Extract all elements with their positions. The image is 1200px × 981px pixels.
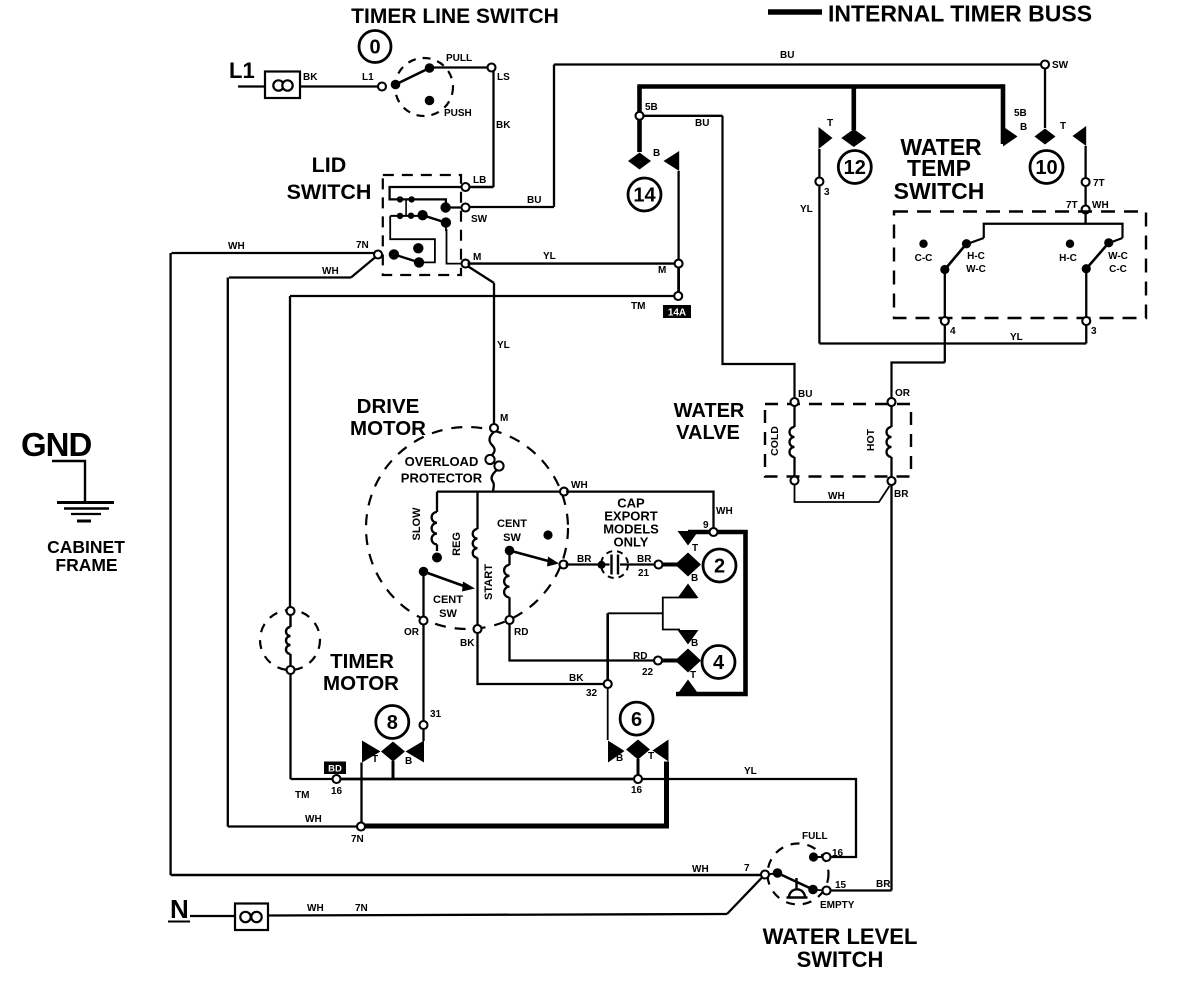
FULL contact: [809, 852, 818, 861]
svg-text:CENT: CENT: [433, 594, 463, 606]
lower cent sw arm: [424, 572, 469, 588]
lid switch bottom loop wire: [390, 216, 435, 263]
timer line switch dashed circle: [395, 58, 453, 116]
wire BU down to water valve: [723, 116, 795, 399]
circled 14: [628, 178, 661, 211]
wire YL node3 down: [818, 185, 820, 344]
wire L1 stub: [238, 85, 265, 87]
svg-text:8: 8: [387, 712, 398, 734]
wire BK from connector to node L1: [300, 85, 381, 87]
node 32: [604, 680, 612, 688]
wire 32 down to cam6: [607, 688, 609, 740]
svg-text:YL: YL: [543, 251, 556, 262]
wire node7 to pivot: [768, 873, 778, 875]
svg-text:LB: LB: [473, 175, 486, 186]
wire BU top run: [554, 63, 1042, 65]
wire cam10 T down to 7T: [1084, 146, 1086, 179]
svg-text:T: T: [648, 751, 654, 762]
wire 31 to cam8 B: [422, 728, 424, 741]
cam 2 diamond: [675, 553, 701, 577]
buss drop to cam 12: [851, 87, 856, 131]
wire WH diagonal from 7N: [351, 257, 376, 278]
timer line switch pivot contact: [391, 80, 401, 90]
cam 14 diamond: [628, 153, 651, 170]
node SW top right: [1041, 61, 1049, 69]
node 16 cam6: [634, 775, 642, 783]
wire TM to node 16: [291, 778, 334, 780]
upper cent sw arm arrowhead: [547, 557, 559, 567]
Z wire cam2B to cam4B and bus: [663, 598, 697, 630]
svg-text:L1: L1: [229, 58, 255, 83]
svg-text:YL: YL: [497, 340, 510, 351]
node 7T WH: [1082, 206, 1090, 214]
node TM: [674, 292, 682, 300]
svg-text:21: 21: [638, 568, 650, 579]
cam 6 T arrow: [653, 740, 669, 762]
svg-text:14: 14: [633, 185, 656, 207]
svg-text:N: N: [170, 894, 189, 924]
svg-text:7N: 7N: [356, 240, 369, 251]
overload ring 1: [485, 455, 494, 464]
svg-text:TIMER LINE SWITCH: TIMER LINE SWITCH: [351, 5, 559, 28]
node 16 full: [823, 853, 831, 861]
lid switch dashed box: [383, 175, 461, 275]
svg-text:PUSH: PUSH: [444, 108, 472, 119]
svg-text:RD: RD: [514, 627, 528, 638]
wire capacitor to node 21: [620, 563, 655, 565]
svg-text:9: 9: [703, 520, 709, 531]
fixed contact H-C: [1066, 240, 1074, 248]
node 7N bottom: [357, 823, 365, 831]
wire BR to capacitor: [566, 563, 610, 565]
wire cam8 T down to 7N: [360, 763, 362, 824]
label BK 32: [569, 673, 598, 699]
node BK drive: [474, 625, 482, 633]
label BR 21: [637, 554, 652, 579]
right arm lower contact: [1082, 264, 1091, 273]
cam 8 B arrow: [406, 741, 425, 763]
wire YL down to drive motor: [493, 283, 495, 424]
svg-text:7: 7: [744, 863, 750, 874]
wire 16 run to cam6: [340, 778, 636, 781]
upper cent sw pivot: [505, 546, 515, 556]
right switch arm: [1086, 243, 1109, 269]
lid switch row2 arm: [423, 215, 446, 222]
svg-text:WH: WH: [228, 241, 245, 252]
upper CENT SW label: [497, 518, 527, 544]
svg-text:TIMER: TIMER: [330, 650, 394, 673]
circled 2: [703, 549, 736, 582]
lid switch inner wire LB row: [390, 187, 464, 205]
svg-text:LID: LID: [312, 153, 347, 177]
node OR: [420, 617, 428, 625]
node 9: [710, 528, 718, 536]
water temp switch dashed box: [894, 212, 1146, 319]
wire cam14 B to node M: [677, 171, 679, 260]
lid switch row2 pivot: [417, 210, 427, 220]
node 7T: [1082, 178, 1090, 186]
svg-text:T: T: [372, 754, 378, 765]
node 4: [941, 317, 949, 325]
svg-text:BU: BU: [780, 50, 794, 61]
ground symbol: [57, 503, 114, 522]
svg-text:T: T: [692, 543, 698, 554]
svg-text:START: START: [483, 564, 495, 600]
lid switch row1 contact b: [408, 196, 414, 202]
START winding: [504, 553, 509, 617]
svg-text:PROTECTOR: PROTECTOR: [401, 471, 483, 486]
svg-text:B: B: [616, 753, 623, 764]
svg-text:12: 12: [844, 157, 866, 179]
svg-text:16: 16: [331, 786, 343, 797]
wire WH to lid 7N: [172, 252, 376, 254]
node L1: [378, 83, 386, 91]
wire WH to node 9: [566, 492, 714, 529]
svg-text:B: B: [653, 148, 660, 159]
REG winding line: [473, 492, 478, 625]
svg-text:14A: 14A: [668, 308, 686, 319]
svg-text:B: B: [405, 756, 412, 767]
wire N stub: [190, 915, 235, 917]
svg-text:ONLY: ONLY: [614, 535, 649, 550]
drive motor top bar: [437, 490, 562, 492]
wire right arm to node 3: [1085, 269, 1087, 318]
lid switch row2 contact b: [408, 213, 414, 219]
lower cent sw pivot: [419, 567, 429, 577]
cam 10 diamond: [1035, 129, 1056, 145]
connector CO at L1: [265, 72, 300, 99]
lid switch floating contact: [413, 243, 423, 253]
wire cam12 T down to node 3: [818, 149, 820, 178]
water level pivot: [773, 868, 783, 878]
svg-text:MOTOR: MOTOR: [350, 417, 426, 440]
cam 6 B arrow: [608, 741, 625, 763]
svg-text:HOT: HOT: [865, 428, 877, 451]
svg-text:3: 3: [1091, 326, 1097, 337]
node BR drive: [560, 561, 568, 569]
wire node4 down: [944, 324, 946, 363]
svg-text:OR: OR: [895, 388, 911, 399]
svg-text:FRAME: FRAME: [55, 555, 117, 575]
cam 4 T arrow: [678, 680, 699, 695]
thick bracket cap export: [676, 532, 746, 694]
wire BU from 5B node: [644, 115, 723, 117]
svg-text:M: M: [500, 413, 508, 424]
svg-text:BK: BK: [303, 72, 318, 83]
WATER TEMP SWITCH label: [894, 134, 985, 204]
svg-text:FULL: FULL: [802, 831, 828, 842]
thick wire node22 to cam4: [661, 659, 678, 663]
left moving contact: [962, 239, 971, 248]
circled 10: [1030, 151, 1063, 184]
lower CENT SW label: [433, 594, 463, 620]
svg-text:WATER LEVEL: WATER LEVEL: [763, 924, 918, 949]
label RD 22: [633, 651, 654, 678]
node 7N lid: [374, 251, 382, 259]
timer line switch PUSH contact: [425, 96, 435, 106]
wire 7T into box: [1084, 213, 1086, 224]
node 5B: [636, 112, 644, 120]
svg-text:B: B: [691, 573, 698, 584]
svg-text:BU: BU: [695, 118, 709, 129]
connector CO at N: [235, 904, 268, 931]
upper cent sw arm: [510, 551, 553, 563]
svg-text:WH: WH: [828, 491, 845, 502]
svg-text:16: 16: [832, 848, 844, 859]
svg-text:5B: 5B: [1014, 108, 1027, 119]
svg-text:WH: WH: [322, 266, 339, 277]
node OR valve: [888, 398, 896, 406]
wire WH left riser down: [169, 253, 171, 875]
label W-C / C-C: [1108, 251, 1128, 275]
wire YL horizontal run: [819, 342, 1086, 344]
node hot bottom BR: [888, 477, 896, 485]
svg-text:5B: 5B: [645, 102, 658, 113]
node M lid: [462, 260, 470, 268]
Z wire branch to 32: [608, 612, 663, 614]
timer line switch PULL contact: [425, 63, 435, 73]
overload protector squiggle: [490, 432, 495, 455]
wire BK LS down to LB: [492, 71, 494, 187]
OVERLOAD PROTECTOR label: [401, 454, 483, 486]
water valve dashed box: [765, 404, 911, 477]
wire RD run: [510, 624, 655, 661]
wire 31 down from OR: [422, 624, 424, 722]
wire BU from SW node rightward: [467, 206, 554, 208]
left arm feed stub: [969, 238, 984, 244]
svg-text:VALVE: VALVE: [676, 422, 740, 444]
svg-text:REG: REG: [451, 532, 463, 556]
buss drop to cam 14: [637, 87, 642, 153]
svg-text:RD: RD: [633, 651, 647, 662]
svg-text:T: T: [827, 118, 833, 129]
overload ring 2: [494, 461, 503, 470]
svg-text:C-C: C-C: [915, 253, 933, 264]
wire WH long bottom run: [171, 874, 761, 877]
svg-text:SW: SW: [1052, 60, 1069, 71]
wire full contact to node: [814, 856, 824, 858]
svg-text:BK: BK: [496, 120, 511, 131]
TIMER MOTOR label: [323, 650, 399, 695]
marker box 14A: [663, 305, 691, 319]
right moving contact: [1104, 238, 1113, 247]
node 16 timer: [333, 775, 341, 783]
svg-text:YL: YL: [744, 766, 757, 777]
wire 15 to BR riser: [830, 889, 892, 891]
wire SW down to cam10: [1044, 68, 1046, 128]
cam 8 diamond: [381, 742, 405, 762]
svg-text:0: 0: [369, 37, 380, 59]
svg-text:B: B: [1020, 122, 1027, 133]
svg-text:H-C: H-C: [967, 251, 985, 262]
timer motor top node: [287, 607, 295, 615]
cam 8 T arrow: [362, 741, 381, 763]
buss drop to cam 10: [1001, 84, 1006, 144]
svg-text:7T: 7T: [1093, 178, 1105, 189]
wire YL from 16: [642, 779, 856, 857]
lid switch wire to SW node: [446, 206, 464, 208]
node 7: [761, 871, 769, 879]
svg-text:CENT: CENT: [497, 518, 527, 530]
wire diagonal up to node 7: [727, 878, 762, 915]
lid switch bottom arm: [394, 254, 419, 262]
water level arm contact: [808, 885, 818, 895]
wire LB to riser: [466, 186, 494, 188]
circled 4: [702, 646, 735, 679]
timer motor bottom node: [287, 666, 295, 674]
svg-text:BU: BU: [798, 389, 812, 400]
lid switch row1 contact a: [397, 196, 403, 202]
wire BK run: [478, 632, 604, 684]
node M cam14: [675, 260, 683, 268]
svg-text:CABINET: CABINET: [47, 537, 125, 557]
svg-text:BK: BK: [460, 638, 475, 649]
upper cent sw fixed dot: [543, 530, 552, 539]
wire WH lower run: [229, 276, 351, 278]
svg-text:DRIVE: DRIVE: [357, 395, 420, 418]
lid switch row2 arm contact: [441, 217, 451, 227]
label H-C / W-C: [966, 251, 986, 275]
SLOW winding: [432, 492, 437, 551]
left switch arm: [945, 244, 967, 270]
circled 12: [838, 151, 871, 184]
lid switch row2 contact a: [397, 213, 403, 219]
svg-text:C-C: C-C: [1109, 264, 1127, 275]
svg-text:B: B: [691, 638, 698, 649]
ground lead: [52, 461, 85, 501]
wire BR down right side: [890, 485, 892, 891]
svg-text:SW: SW: [471, 214, 488, 225]
cam 6 diamond: [626, 740, 650, 760]
svg-text:H-C: H-C: [1059, 253, 1077, 264]
capacitor dashed circle: [601, 551, 628, 578]
fixed contact C-C: [919, 240, 927, 248]
node BU valve: [791, 398, 799, 406]
svg-text:T: T: [1060, 121, 1066, 132]
node LB: [462, 183, 470, 191]
thick wire node21 to cam2: [662, 563, 678, 567]
svg-text:BR: BR: [637, 554, 652, 565]
node RD: [506, 616, 514, 624]
timer motor dashed circle: [260, 610, 320, 670]
svg-text:SWITCH: SWITCH: [894, 178, 985, 204]
cam 14 B contact arrow: [664, 151, 680, 171]
thick buss bottom run: [363, 824, 669, 829]
HOT coil: [887, 406, 892, 477]
node 3 cam12: [815, 178, 823, 186]
wire jog to OR: [892, 363, 945, 400]
circled 8: [376, 706, 409, 739]
right arm feed stub: [1111, 238, 1123, 243]
svg-text:M: M: [473, 252, 481, 263]
wire 32 vertical: [606, 613, 609, 681]
wire TM down: [289, 674, 291, 779]
internal timer buss top run: [637, 84, 1003, 89]
wire 7T to WH node: [1084, 185, 1086, 206]
svg-text:WH: WH: [1092, 200, 1109, 211]
water temp switch feed bar: [984, 224, 1123, 238]
svg-text:SW: SW: [503, 532, 521, 544]
cam 12 diamond: [841, 129, 866, 147]
svg-text:EMPTY: EMPTY: [820, 900, 855, 911]
svg-text:MOTOR: MOTOR: [323, 672, 399, 695]
cam 4 diamond: [675, 649, 701, 673]
wire M lid to cam14: [468, 262, 677, 264]
node 3 wts: [1082, 317, 1090, 325]
svg-text:BR: BR: [876, 879, 891, 890]
svg-text:L1: L1: [362, 72, 374, 83]
lid switch row2 wire: [390, 215, 422, 217]
svg-text:31: 31: [430, 709, 442, 720]
node 31: [420, 721, 428, 729]
marker box BD: [324, 762, 346, 775]
cam 4 B arrow: [678, 630, 699, 645]
thick wire cam6 T down: [664, 762, 669, 828]
lid switch bottom arm contact: [414, 257, 424, 267]
svg-text:WH: WH: [692, 864, 709, 875]
svg-text:3: 3: [824, 187, 830, 198]
lid switch 7N contact: [389, 249, 399, 259]
cam 2 T arrow: [678, 531, 699, 546]
svg-text:PULL: PULL: [446, 53, 472, 64]
cam 6 stem: [637, 759, 640, 776]
lid switch wire arm down to M: [446, 223, 464, 264]
node M drive motor: [490, 424, 498, 432]
circled 6: [620, 702, 653, 735]
circled 0 timer line switch cam: [359, 31, 391, 63]
wire TM run to left: [290, 295, 674, 297]
svg-text:7N: 7N: [355, 903, 368, 914]
svg-text:SW: SW: [439, 608, 457, 620]
capacitor plates: [612, 555, 619, 575]
svg-text:TM: TM: [631, 301, 645, 312]
label TM 16: [295, 786, 343, 801]
pressure dome: [787, 878, 808, 898]
svg-text:BR: BR: [894, 489, 909, 500]
wire left arm to node 4: [944, 270, 946, 319]
wire node3 to YL run: [1085, 324, 1087, 344]
cam 12 T contact arrow: [819, 127, 833, 149]
cam 2 B arrow: [678, 584, 699, 599]
WATER LEVEL SWITCH label: [763, 924, 918, 972]
svg-text:YL: YL: [1010, 332, 1023, 343]
wire WH second riser down: [227, 278, 229, 827]
lid switch SW contact: [440, 202, 450, 212]
junction dot BR: [598, 561, 606, 569]
cam 10 T contact arrow: [1073, 126, 1087, 146]
svg-text:T: T: [690, 670, 696, 681]
SLOW end contact: [432, 553, 442, 563]
svg-text:WH: WH: [571, 480, 588, 491]
svg-text:OR: OR: [404, 627, 420, 638]
svg-text:6: 6: [631, 709, 642, 731]
svg-text:BD: BD: [328, 764, 342, 775]
node 15: [823, 887, 831, 895]
svg-text:4: 4: [950, 326, 956, 337]
svg-text:7T: 7T: [1066, 200, 1078, 211]
svg-text:YL: YL: [800, 204, 813, 215]
svg-text:W-C: W-C: [966, 264, 986, 275]
WATER VALVE label: [674, 400, 745, 444]
svg-text:W-C: W-C: [1108, 251, 1128, 262]
DRIVE MOTOR label: [350, 395, 426, 440]
wire YL diagonal from lid M: [468, 266, 495, 283]
svg-text:22: 22: [642, 667, 654, 678]
LID SWITCH label: [287, 153, 372, 204]
svg-text:M: M: [658, 265, 666, 276]
wire M node to TM node: [677, 266, 680, 293]
svg-text:2: 2: [714, 556, 725, 578]
